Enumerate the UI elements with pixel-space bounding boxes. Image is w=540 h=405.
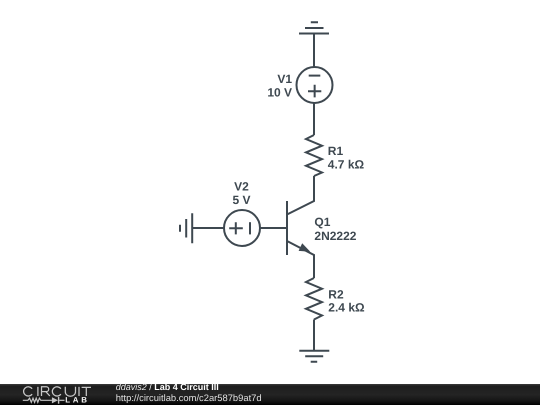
svg-text:Q1: Q1 <box>314 215 330 229</box>
svg-text:2.4 kΩ: 2.4 kΩ <box>328 301 365 315</box>
svg-text:5 V: 5 V <box>232 193 250 207</box>
svg-text:R1: R1 <box>328 144 344 158</box>
svg-text:ddavis2 / Lab 4 Circuit III: ddavis2 / Lab 4 Circuit III <box>116 382 219 392</box>
svg-text:4.7 kΩ: 4.7 kΩ <box>328 157 365 171</box>
svg-text:LAB: LAB <box>65 395 90 404</box>
svg-text:10 V: 10 V <box>267 86 292 100</box>
svg-text:R2: R2 <box>328 287 344 301</box>
svg-text:2N2222: 2N2222 <box>314 229 356 243</box>
svg-text:V2: V2 <box>234 179 249 193</box>
svg-text:http://circuitlab.com/c2ar587b: http://circuitlab.com/c2ar587b9at7d <box>116 392 262 403</box>
svg-text:V1: V1 <box>277 72 292 86</box>
